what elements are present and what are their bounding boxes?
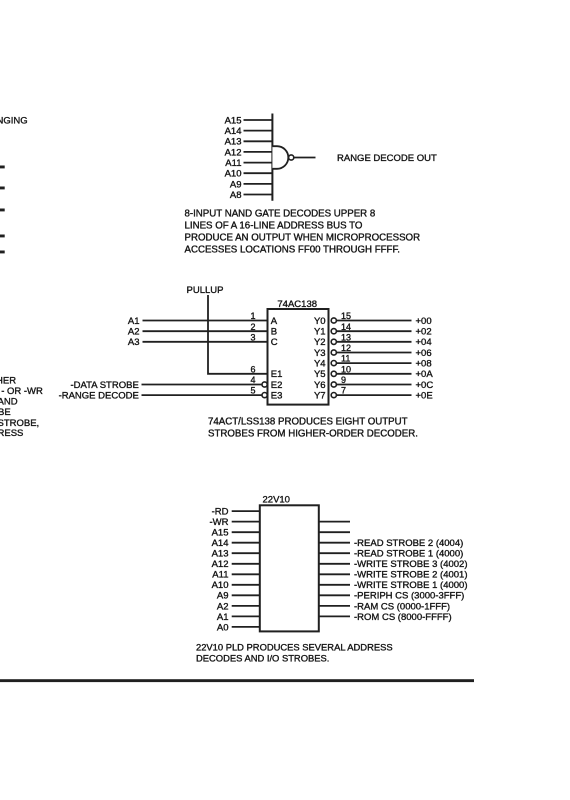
svg-text:74AC138: 74AC138 xyxy=(277,299,317,310)
wire A14 to U3 xyxy=(232,542,260,544)
svg-text:A2: A2 xyxy=(217,601,229,612)
svg-text:E1: E1 xyxy=(271,369,283,380)
wire U3 output: -READ STROBE 2 (4004) xyxy=(319,542,350,544)
svg-text:A10: A10 xyxy=(225,169,242,180)
svg-text:+02: +02 xyxy=(416,327,432,338)
svg-text:12: 12 xyxy=(341,343,351,353)
svg-text:A9: A9 xyxy=(217,591,229,602)
wire Y3 to +06 xyxy=(337,352,412,354)
wire Y5 to +0A xyxy=(337,373,412,375)
svg-text:A15: A15 xyxy=(225,115,242,126)
inversion bubble E2 input xyxy=(262,382,267,387)
svg-text:+0C: +0C xyxy=(416,380,434,391)
svg-text:RESS: RESS xyxy=(0,428,23,439)
wire A13 to U3 xyxy=(232,552,260,554)
wire U3 output: -WRITE STROBE 3 (4002) xyxy=(319,563,350,565)
wire Y6 to +0C xyxy=(337,384,412,386)
inversion bubble Y6 output xyxy=(331,382,336,387)
wire A11 to NAND input bar xyxy=(244,162,273,164)
truncated margin dash 2 xyxy=(0,187,4,189)
wire Y4 to +08 xyxy=(337,362,412,364)
inversion bubble Y1 output xyxy=(331,329,336,334)
svg-text:-WRITE STROBE 2 (4001): -WRITE STROBE 2 (4001) xyxy=(354,570,468,581)
wire Y2 to +04 xyxy=(337,341,412,343)
svg-text:7: 7 xyxy=(341,386,346,396)
wire U3 output: -ROM CS (8000-FFFF) xyxy=(319,615,350,617)
svg-text:DECODES AND I/O STROBES.: DECODES AND I/O STROBES. xyxy=(196,653,329,664)
svg-text:A2: A2 xyxy=(128,327,140,338)
wire A12 to U3 xyxy=(232,563,260,565)
wire A3 to U2 pin 3 xyxy=(143,341,268,343)
svg-text:A: A xyxy=(271,316,278,327)
svg-text:4: 4 xyxy=(250,375,255,385)
svg-text:+0E: +0E xyxy=(416,391,433,402)
svg-text:Y7: Y7 xyxy=(314,391,326,402)
wire -DATA STROBE to U2 pin 4 xyxy=(142,384,262,386)
page rule (bottom horizontal line) xyxy=(0,680,474,682)
truncated margin dash 5 xyxy=(0,251,4,253)
svg-text:E2: E2 xyxy=(271,380,283,391)
wire U3 output: -PERIPH CS (3000-3FFF) xyxy=(319,594,350,596)
inversion bubble Y7 output xyxy=(331,393,336,398)
svg-text:+00: +00 xyxy=(416,316,432,327)
wire A1 to U3 xyxy=(232,615,260,617)
wire NAND output xyxy=(294,157,316,159)
inversion bubble Y5 output xyxy=(331,371,336,376)
svg-text:ACCESSES LOCATIONS FF00 THROUG: ACCESSES LOCATIONS FF00 THROUGH FFFF. xyxy=(185,245,400,256)
wire U3 output: -WRITE STROBE 2 (4001) xyxy=(319,573,350,575)
svg-text:PRODUCE AN OUTPUT WHEN MICROPR: PRODUCE AN OUTPUT WHEN MICROPROCESSOR xyxy=(185,233,421,244)
wire A12 to NAND input bar xyxy=(244,151,273,153)
svg-text:A1: A1 xyxy=(217,612,229,623)
wire -RANGE DECODE to U2 pin 5 xyxy=(142,394,262,396)
svg-text:LINES OF A 16-LINE ADDRESS BUS: LINES OF A 16-LINE ADDRESS BUS TO xyxy=(185,221,363,232)
wire U3 output: -RAM CS (0000-1FFF) xyxy=(319,605,350,607)
svg-text:+0A: +0A xyxy=(416,369,434,380)
inversion bubble Y0 output xyxy=(331,318,336,323)
wire Y7 to +0E xyxy=(337,394,412,396)
wire Y0 to +00 xyxy=(337,320,412,322)
svg-text:Y3: Y3 xyxy=(314,348,326,359)
svg-text:-ROM CS (8000-FFFF): -ROM CS (8000-FFFF) xyxy=(354,612,452,623)
svg-text:11: 11 xyxy=(341,354,350,364)
svg-text:+08: +08 xyxy=(416,359,432,370)
inversion bubble E3 input xyxy=(262,393,267,398)
wire A10 to NAND input bar xyxy=(244,172,273,174)
svg-text:- OR -WR: - OR -WR xyxy=(1,386,43,397)
svg-text:Y6: Y6 xyxy=(314,380,326,391)
inversion bubble Y3 output xyxy=(331,350,336,355)
svg-text:-READ STROBE 2 (4004): -READ STROBE 2 (4004) xyxy=(354,538,463,549)
svg-text:9: 9 xyxy=(341,375,346,385)
wire A1 to U2 pin 1 xyxy=(143,320,268,322)
wire A9 to NAND input bar xyxy=(244,183,273,185)
svg-text:A10: A10 xyxy=(212,580,229,591)
svg-text:Y0: Y0 xyxy=(314,316,326,327)
wire -WR to U3 xyxy=(232,521,260,523)
svg-text:8-INPUT NAND GATE DECODES UPPE: 8-INPUT NAND GATE DECODES UPPER 8 xyxy=(185,209,376,220)
wire U3 output: U3 unlabeled output 2 xyxy=(319,531,350,533)
wire A9 to U3 xyxy=(232,594,260,596)
svg-text:BE: BE xyxy=(0,407,11,418)
wire -RD to U3 xyxy=(232,510,260,512)
svg-text:NGING: NGING xyxy=(0,116,28,127)
wire A15 to NAND input bar xyxy=(244,119,273,121)
svg-text:22V10 PLD PRODUCES SEVERAL ADD: 22V10 PLD PRODUCES SEVERAL ADDRESS xyxy=(196,642,393,653)
wire A0 to U3 xyxy=(232,626,260,628)
svg-text:A13: A13 xyxy=(225,137,242,148)
wire A2 to U2 pin 2 xyxy=(143,330,268,332)
inversion bubble Y4 output xyxy=(331,361,336,366)
svg-text:22V10: 22V10 xyxy=(263,495,290,506)
svg-text:15: 15 xyxy=(341,311,351,321)
svg-text:B: B xyxy=(271,327,277,338)
svg-text:+06: +06 xyxy=(416,348,432,359)
wire A8 to NAND input bar xyxy=(244,194,273,196)
truncated margin dash 3 xyxy=(0,209,4,211)
wire A14 to NAND input bar xyxy=(244,130,273,132)
wire A13 to NAND input bar xyxy=(244,140,273,142)
svg-text:Y4: Y4 xyxy=(314,359,326,370)
svg-text:6: 6 xyxy=(250,364,255,374)
wire A10 to U3 xyxy=(232,584,260,586)
svg-text:A0: A0 xyxy=(217,622,229,633)
wire PULLUP net to U2 pin 6 (E1) xyxy=(208,295,268,374)
svg-text:A8: A8 xyxy=(230,190,242,201)
svg-text:RANGE DECODE OUT: RANGE DECODE OUT xyxy=(337,153,437,164)
inversion bubble Y2 output xyxy=(331,339,336,344)
svg-text:10: 10 xyxy=(341,364,351,374)
svg-text:-READ STROBE 1 (4000): -READ STROBE 1 (4000) xyxy=(354,549,463,560)
IC U3 22V10 body xyxy=(260,505,319,631)
IC U2 74AC138 body xyxy=(268,309,329,405)
svg-text:A11: A11 xyxy=(212,570,228,581)
svg-text:A14: A14 xyxy=(225,126,242,137)
svg-text:E3: E3 xyxy=(271,391,283,402)
svg-text:74ACT/LSS138 PRODUCES EIGHT OU: 74ACT/LSS138 PRODUCES EIGHT OUTPUT xyxy=(208,416,408,427)
wire A11 to U3 xyxy=(232,573,260,575)
svg-text:A3: A3 xyxy=(128,337,140,348)
svg-text:PULLUP: PULLUP xyxy=(187,285,224,296)
svg-text:A11: A11 xyxy=(225,158,241,169)
wire A2 to U3 xyxy=(232,605,260,607)
wire Y1 to +02 xyxy=(337,330,412,332)
svg-text:-RANGE DECODE: -RANGE DECODE xyxy=(59,391,139,402)
svg-text:A12: A12 xyxy=(225,147,242,158)
svg-text:A12: A12 xyxy=(212,559,229,570)
svg-text:-PERIPH CS (3000-3FFF): -PERIPH CS (3000-3FFF) xyxy=(354,591,464,602)
wire U3 output: -READ STROBE 1 (4000) xyxy=(319,552,350,554)
wire U3 output: -WRITE STROBE 1 (4000) xyxy=(319,584,350,586)
NAND gate U1 input bar xyxy=(271,114,273,201)
svg-text:-RD: -RD xyxy=(212,507,229,518)
wire U3 output: U3 unlabeled output 1 xyxy=(319,521,350,523)
truncated margin dash 1 xyxy=(0,166,4,168)
svg-text:A13: A13 xyxy=(212,549,229,560)
svg-text:2: 2 xyxy=(250,322,255,332)
svg-text:Y2: Y2 xyxy=(314,337,326,348)
svg-text:-WRITE STROBE 1 (4000): -WRITE STROBE 1 (4000) xyxy=(354,580,468,591)
wire A15 to U3 xyxy=(232,531,260,533)
svg-text:-RAM CS (0000-1FFF): -RAM CS (0000-1FFF) xyxy=(354,601,450,612)
svg-text:5: 5 xyxy=(250,386,255,396)
truncated margin dash 4 xyxy=(0,235,4,237)
svg-text:-WRITE STROBE 3 (4002): -WRITE STROBE 3 (4002) xyxy=(354,559,468,570)
svg-text:A15: A15 xyxy=(212,528,229,539)
svg-text:C: C xyxy=(271,337,278,348)
svg-text:1: 1 xyxy=(250,311,255,321)
NAND gate U1 body xyxy=(272,146,288,169)
svg-text:-WR: -WR xyxy=(210,517,229,528)
svg-text:A14: A14 xyxy=(212,538,229,549)
svg-text:3: 3 xyxy=(250,332,255,342)
svg-text:A1: A1 xyxy=(128,316,140,327)
svg-text:Y5: Y5 xyxy=(314,369,326,380)
svg-text:-DATA STROBE: -DATA STROBE xyxy=(71,380,139,391)
svg-text:Y1: Y1 xyxy=(314,327,326,338)
svg-text:+04: +04 xyxy=(416,337,432,348)
svg-text:13: 13 xyxy=(341,332,351,342)
NAND output inversion bubble xyxy=(289,155,294,160)
svg-text:HER: HER xyxy=(0,375,16,386)
svg-text:A9: A9 xyxy=(230,179,242,190)
svg-text:14: 14 xyxy=(341,322,351,332)
svg-text:STROBES FROM HIGHER-ORDER DECO: STROBES FROM HIGHER-ORDER DECODER. xyxy=(208,428,418,439)
